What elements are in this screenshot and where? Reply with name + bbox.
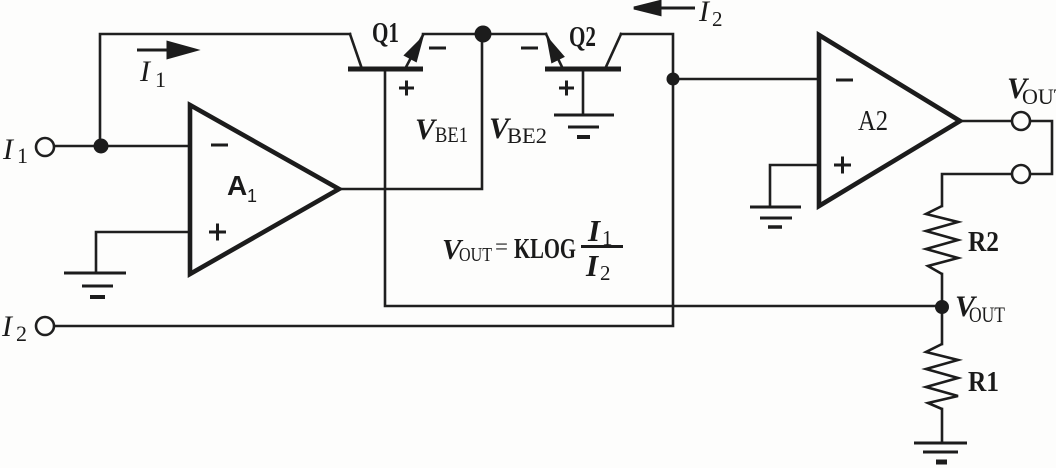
svg-text:1: 1 (247, 186, 257, 206)
svg-text:I: I (585, 248, 599, 283)
svg-text:R1: R1 (968, 366, 999, 398)
svg-text:2: 2 (16, 321, 27, 346)
svg-text:OUT: OUT (969, 302, 1005, 327)
svg-text:I: I (587, 213, 601, 248)
svg-text:BE1: BE1 (435, 122, 468, 147)
svg-text:2: 2 (600, 261, 611, 285)
svg-text:A2: A2 (858, 106, 888, 137)
svg-text:=: = (495, 234, 508, 259)
svg-text:2: 2 (712, 7, 723, 31)
svg-text:A: A (227, 170, 247, 201)
svg-text:Q1: Q1 (372, 18, 399, 49)
svg-text:R2: R2 (968, 226, 999, 258)
svg-text:BE2: BE2 (507, 123, 547, 148)
svg-text:OUT: OUT (1022, 84, 1056, 109)
svg-text:OUT: OUT (459, 244, 492, 266)
svg-text:KLOG: KLOG (514, 233, 576, 265)
svg-text:1: 1 (155, 67, 166, 92)
svg-text:1: 1 (17, 143, 28, 168)
svg-text:Q2: Q2 (569, 22, 596, 53)
